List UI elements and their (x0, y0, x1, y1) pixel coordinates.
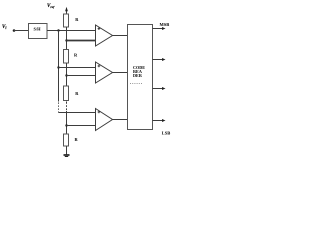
svg-text:R: R (74, 53, 78, 58)
node tap 3 dot (65, 124, 67, 126)
svg-text:MSB: MSB (160, 22, 170, 27)
wire tap3 to comparator A3 bottom input (67, 125, 96, 127)
wire R4 to ground (66, 146, 68, 155)
resistor R2 (64, 50, 69, 64)
svg-text:S/H: S/H (34, 26, 42, 31)
resistor R1 (64, 14, 69, 27)
wire output bit 3 arrow (153, 88, 164, 90)
svg-text:R: R (75, 17, 79, 22)
wire ladder R1 to R2 (66, 27, 68, 50)
node tap 2 dot (65, 74, 67, 76)
svg-text:R: R (75, 91, 79, 96)
wire A3 output (113, 119, 128, 121)
resistor R4 (64, 134, 69, 146)
wire tap2 to comparator A2 bottom input (67, 75, 96, 77)
op-amp A1 comparator (96, 25, 113, 46)
svg-text:LSB: LSB (162, 130, 171, 135)
wire output MSB arrow (153, 28, 164, 30)
wire Vi to S/H (14, 30, 29, 32)
svg-text:Vi: Vi (2, 25, 6, 30)
S/H block (29, 24, 48, 39)
wire Vin bus dashed (58, 103, 60, 113)
svg-text:R: R (75, 137, 79, 142)
wire bus to comparator A3 top input (59, 112, 96, 114)
wire ladder dashed continuation (66, 102, 68, 111)
ground (64, 154, 70, 156)
ellipsis inside block (130, 83, 142, 85)
code converter block (128, 25, 153, 130)
svg-text:Vref: Vref (47, 4, 55, 9)
node Vi terminal dot (13, 29, 16, 32)
wire ladder to R4 (66, 111, 68, 134)
wire S/H output to comparator A1 top input (47, 30, 96, 32)
resistor R3 (64, 86, 69, 101)
wire bus to comparator A2 top input (59, 67, 96, 69)
op-amp A3 comparator (96, 109, 113, 131)
wire output bit 2 arrow (153, 59, 164, 61)
junction dot bus to A2 (57, 66, 59, 68)
wire tap1 to comparator A1 bottom input (67, 40, 96, 42)
wire A1 output (113, 35, 128, 37)
wire A2 output (113, 72, 128, 74)
wire ladder below R3 solid (66, 101, 68, 102)
junction dot Vin bus takeoff (57, 29, 59, 31)
node tap 1 dot (65, 39, 67, 41)
Vref arrow (66, 11, 68, 15)
wire ladder R2 to R3 (66, 63, 68, 86)
wire output LSB arrow (153, 120, 164, 122)
svg-text:DER: DER (133, 73, 143, 78)
op-amp A2 comparator (96, 62, 113, 83)
wire Vin bus vertical solid (58, 31, 60, 102)
